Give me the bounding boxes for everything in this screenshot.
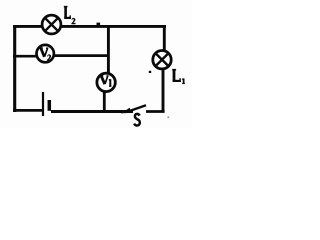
wire bottom right (switch to right rail): [146, 110, 165, 113]
wire bottom middle (battery to switch): [51, 110, 133, 113]
switch S blade: [127, 105, 146, 112]
wire mid vertical (top wire down to V1): [107, 25, 110, 75]
voltmeter V1 letter V: [100, 76, 109, 84]
lamp L2 cross: [46, 19, 58, 31]
scan speck near L1: [149, 71, 151, 73]
wire V2 branch right (V2 to mid vertical): [46, 54, 109, 57]
scan speck below S: [167, 116, 169, 118]
voltmeter V2 subscript 2: [47, 54, 51, 60]
wire V1 bottom lead: [103, 90, 106, 112]
battery long plate (positive): [42, 92, 44, 116]
switch S arrowhead: [121, 108, 131, 114]
voltmeter V2 circle: [37, 45, 54, 62]
wire bottom-left (rail to battery): [13, 109, 42, 112]
label L1 letter L: [172, 70, 181, 82]
wire top horizontal from left rail to top-right corner: [13, 25, 166, 28]
lamp L2 circle: [42, 15, 61, 34]
wire left rail vertical: [13, 25, 16, 112]
wire V2 branch left (rail to V2): [13, 55, 46, 58]
label S: [134, 114, 140, 126]
voltmeter V1 circle: [97, 73, 115, 91]
wire right rail lower (bottom wire up to L1): [162, 65, 165, 112]
lamp L1 circle: [153, 51, 171, 69]
scan speck on top wire: [97, 23, 101, 26]
voltmeter V2 letter V: [40, 48, 49, 57]
label L2 subscript 2: [71, 18, 75, 24]
battery short thick plate (negative): [48, 100, 52, 111]
label L2 letter L: [64, 7, 71, 19]
wire right rail upper (top wire down to L1): [163, 25, 166, 55]
lamp L1 cross: [156, 54, 167, 65]
voltmeter V1 subscript 1: [109, 79, 112, 86]
label L1 subscript 1: [182, 78, 185, 83]
